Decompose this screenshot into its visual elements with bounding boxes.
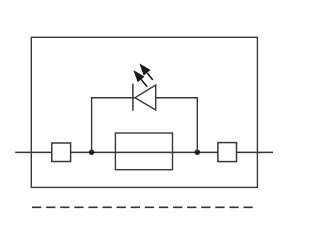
terminal clamp left (52, 143, 71, 162)
wire: main through conductor (15, 151, 273, 153)
wire: right LED branch riser (156, 98, 198, 152)
wire: left LED branch riser (92, 98, 135, 152)
LED D1 light arrow 1 (upper) (139, 63, 152, 80)
DIN-rail dashed line (32, 206, 254, 208)
fuse F1 (115, 133, 172, 170)
terminal clamp right (218, 143, 237, 162)
node B (right junction dot) (195, 150, 200, 155)
LED D1 light arrow 2 (lower) (133, 70, 147, 87)
node A (left junction dot) (89, 150, 94, 155)
outer terminal-block body outline (31, 37, 257, 187)
LED D1 anode triangle (135, 85, 156, 110)
LED D1 cathode bar (132, 84, 134, 111)
